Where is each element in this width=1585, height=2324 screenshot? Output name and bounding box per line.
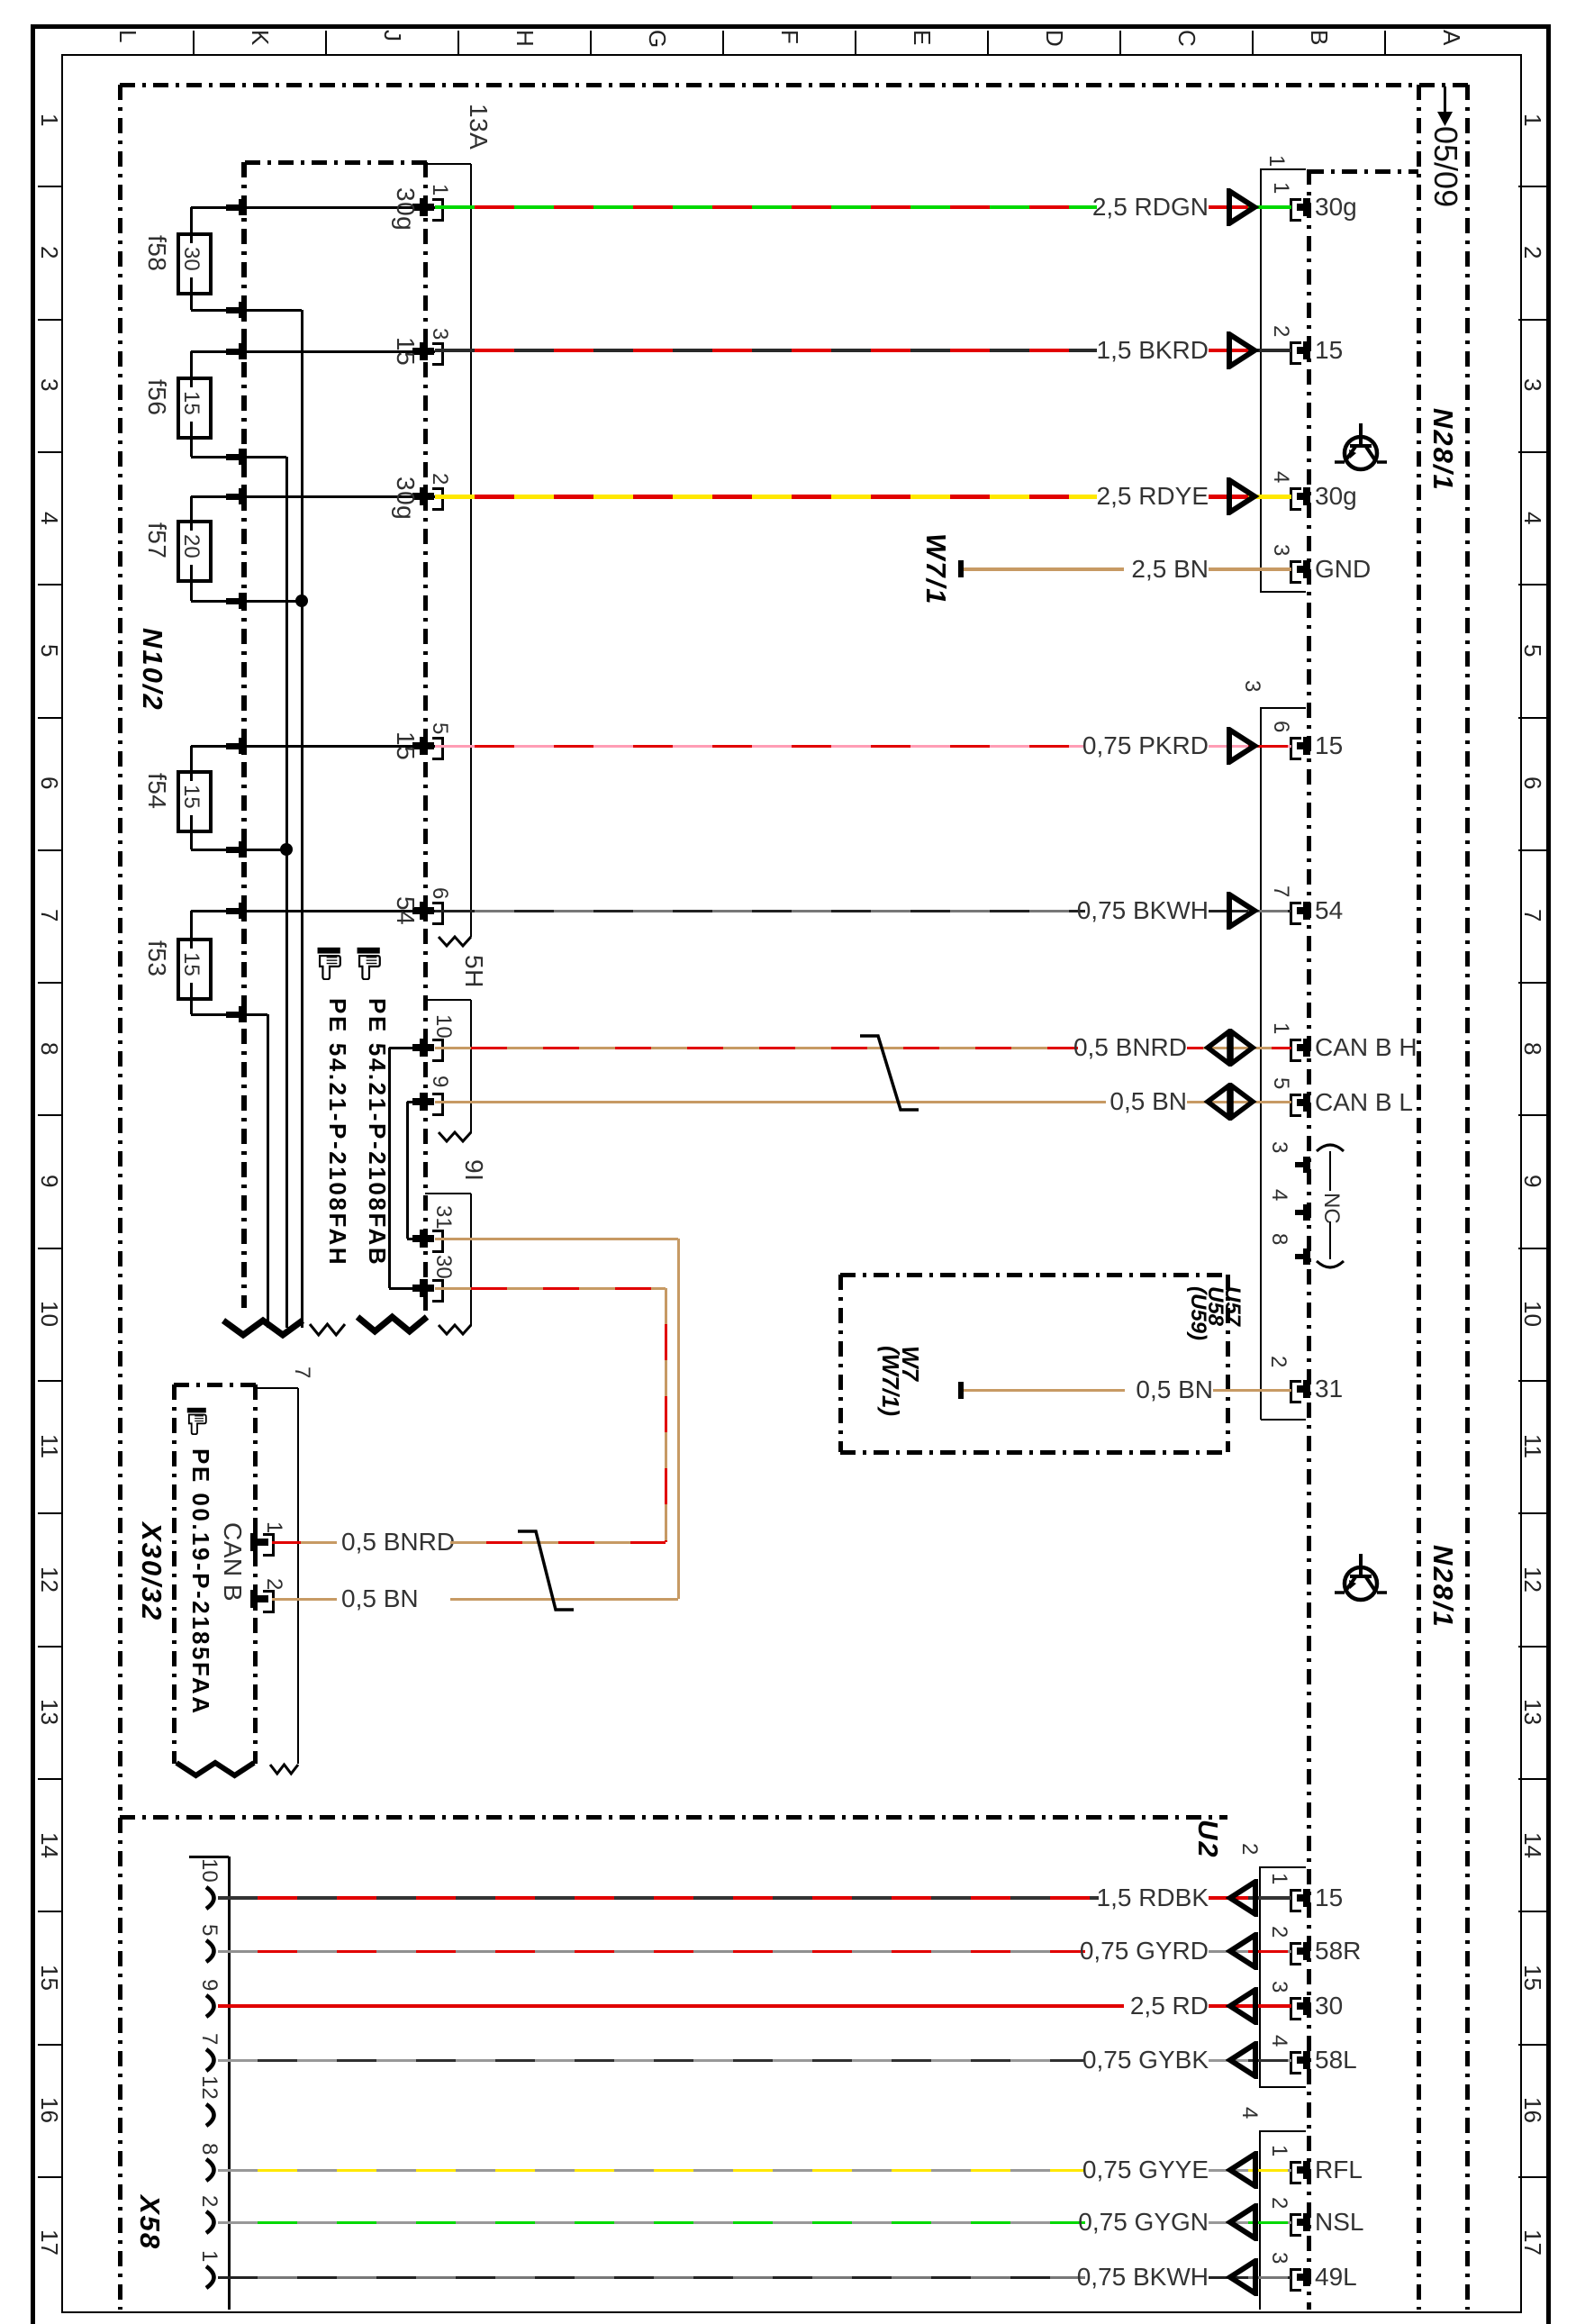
pin 1 on X30/32 [250, 1533, 258, 1551]
torn end of 13A outline [433, 931, 476, 951]
arrows 0,5 BNRD [1203, 1029, 1257, 1067]
torn end of 13A line [352, 1312, 432, 1337]
arrow 0,75 PKRD [1226, 727, 1262, 765]
wire 0,75 GYGN [218, 2221, 1085, 2224]
label 5H [461, 955, 486, 988]
pin 6 15 [1290, 737, 1301, 760]
fuse f53 15A [177, 938, 213, 1001]
connector 3 bracket [1260, 707, 1262, 1420]
reference PE 00.19-P-2185FAA with hand [185, 1407, 210, 1435]
wire 0,75 PKRD [435, 745, 1085, 748]
arrow 0,75 GYRD [1226, 1932, 1262, 1970]
torn end of 9I outline [433, 1320, 476, 1339]
label N10/2 [139, 628, 167, 712]
pin 3 NC [1303, 1157, 1310, 1173]
connector 3 number [1241, 680, 1263, 692]
pin 2 31 [1290, 1380, 1301, 1403]
arrow 0,75 BKWH [1226, 892, 1262, 930]
wire 0,75 GYBK [218, 2059, 1085, 2062]
label U2 [1194, 1820, 1222, 1859]
wire f54 bottom to feeder junction [191, 849, 286, 851]
wire f57 bottom to feeder junction [191, 600, 302, 603]
pin 2 15 [1290, 341, 1301, 365]
wire 0,75 GYRD [218, 1950, 1085, 1953]
pin 2 on X30/32 [250, 1590, 258, 1608]
pin f58 top on N10/2 [226, 204, 243, 211]
label X58 [136, 2195, 164, 2250]
pin f57 bottom on N10/2 [226, 598, 243, 604]
pin f53 bottom on N10/2 [226, 1012, 243, 1018]
pin 2 NSL (U2) [1290, 2213, 1301, 2237]
torn end of 5H outline [433, 1127, 476, 1147]
pin 8 on X58 [202, 2156, 225, 2183]
wire 2,5 BN to W7/1 [964, 567, 1124, 571]
connector 13A outline [425, 163, 471, 165]
pin f56 top on N10/2 [226, 349, 243, 355]
pin 3 30 (U2) [1290, 1997, 1301, 2020]
CAN B L link wire 5H-9 to 9I-31 [407, 1101, 420, 1103]
fuse f57 20A [177, 520, 213, 583]
pin 2 on X58 [202, 2209, 225, 2236]
ground point W7 box [840, 1273, 1227, 1277]
torn ends of feeder wires [304, 1319, 350, 1340]
connector 2 number [1267, 1356, 1289, 1367]
pin f54 bottom on N10/2 [226, 847, 243, 853]
torn end of N10/2 line [218, 1315, 308, 1340]
system boundary (dash-dot box) [118, 85, 122, 2310]
arrow 0,75 GYGN [1226, 2203, 1262, 2241]
pin 1 30g on 13A [412, 204, 434, 211]
label U57 U58 (U59) [1190, 1286, 1241, 1340]
pin 1 RFL (U2) [1290, 2161, 1301, 2184]
arrows 0,5 BN [1203, 1083, 1257, 1121]
wire f53 bottom feeder [191, 1013, 267, 1016]
arrow 2,5 RDGN [1226, 188, 1262, 226]
pin f57 top on N10/2 [226, 494, 243, 500]
connector X30/32 box [174, 1383, 257, 1387]
pin 8 NC [1303, 1248, 1310, 1265]
pin 4 30g [1290, 487, 1301, 511]
connector 1 number [1265, 155, 1287, 167]
ground terminal W7/1 [958, 560, 964, 577]
connector 4 bracket (U2) [1259, 2130, 1261, 2310]
connector 13A face line [423, 162, 428, 1311]
fuse f56 15A [177, 377, 213, 440]
pin 10 on 5H [412, 1044, 434, 1051]
sheet reference arrow 05/09 [1444, 86, 1446, 113]
wire 1,5 BKRD [435, 349, 1097, 352]
pin f53 top on N10/2 [226, 908, 243, 914]
connector 2 bracket (U2) [1259, 1866, 1261, 2088]
NC bracket [1315, 1137, 1345, 1155]
arrow 0,75 GYYE [1226, 2151, 1262, 2189]
pin 3 15 on 13A [412, 348, 434, 355]
wire 0,5 BN to CAN B pin 2 [272, 1598, 337, 1601]
fuse f58 30A [177, 232, 213, 295]
pin 3 GND [1290, 560, 1301, 584]
junction dot f57/f58 feeder [295, 595, 308, 607]
wire 0,5 BNRD CAN B H [435, 1047, 1078, 1049]
wire f54 top to 13A pin 5 [191, 745, 435, 748]
pin 9 on X58 [202, 1993, 225, 2020]
connector 9I outline [425, 1193, 471, 1194]
label X30/32 [138, 1522, 166, 1621]
arrow 2,5 RD [1226, 1987, 1262, 2025]
pin 7 54 [1290, 902, 1301, 925]
pin 6 54 on 13A [412, 907, 434, 914]
arrow 0,75 GYBK [1226, 2041, 1262, 2079]
arrow 1,5 RDBK [1226, 1879, 1262, 1917]
wire 0,75 GYYE [218, 2169, 1085, 2172]
connector 2 number [1238, 1843, 1260, 1855]
wire f56 bottom feeder [191, 456, 286, 458]
connector X58 outline [189, 1856, 229, 1858]
arrow 1,5 BKRD [1226, 331, 1262, 369]
transistor symbol upper [1334, 422, 1388, 477]
wire 0,75 BKWH [435, 910, 1085, 912]
wire f56 top to 13A pin 3 [191, 350, 435, 353]
pin 9 on 5H [412, 1098, 434, 1105]
wire 2,5 RD [218, 2004, 1124, 2008]
pin 1 on X58 [202, 2264, 225, 2291]
wire f57 top to 13A pin 2 [191, 495, 435, 498]
CAN B H link wire 5H-10 to 9I-30 [389, 1047, 420, 1049]
pin 1 15 (U2) [1290, 1889, 1301, 1912]
label W7/1 [922, 533, 950, 605]
junction dot f54/f56 feeder [280, 843, 293, 856]
arrow 2,5 RDYE [1226, 477, 1262, 515]
wire 0,5 BNRD to CAN B pin 1 [272, 1541, 337, 1544]
torn end of X30/32 outline [265, 1759, 303, 1779]
wire f53 top to 13A pin 6 [191, 910, 435, 912]
pin 1 30g [1290, 198, 1301, 222]
wire 2,5 RDGN [435, 205, 1097, 209]
connector 1 bracket [1260, 168, 1262, 593]
pin 3 49L (U2) [1290, 2268, 1301, 2292]
pin 5 CAN B L [1290, 1094, 1301, 1117]
label N28/1 lower [1429, 1545, 1457, 1629]
label N28/1 upper [1429, 408, 1457, 492]
pin 12 on X58 [202, 2102, 225, 2129]
transistor symbol lower [1334, 1553, 1388, 1607]
pin 30 on 9I [412, 1285, 434, 1292]
label 9I [461, 1159, 486, 1181]
pin 1 CAN B H [1290, 1039, 1301, 1062]
wire f58 bottom feeder [191, 309, 302, 312]
reference PE 54.21-P-2108FAB with hand [354, 947, 385, 980]
pin 5 15 on 13A [412, 742, 434, 749]
arrow 0,75 BKWH lower [1226, 2258, 1262, 2296]
pin f56 bottom on N10/2 [226, 454, 243, 460]
connector X30/32 outline [257, 1387, 298, 1389]
label 13A [466, 104, 491, 150]
label W7 (W7/1) [881, 1346, 920, 1416]
wire 0,5 BN CAN B L [435, 1101, 1106, 1103]
pin 2 58R (U2) [1290, 1942, 1301, 1965]
wire 0,5 BN to pin 31 [964, 1389, 1125, 1392]
wire f58 top to 13A pin 1 [191, 206, 435, 209]
N28/1 connector face line [1307, 169, 1311, 2310]
fuse f54 15A [177, 770, 213, 833]
pin 4 NC [1303, 1204, 1310, 1221]
wire 0,75 BKWH lower [218, 2276, 1085, 2279]
pin f58 bottom on N10/2 [226, 307, 243, 313]
N28/1 control unit outer edge [1417, 85, 1421, 2310]
torn end of X30/32 box [171, 1757, 259, 1781]
wire 1,5 RDBK [218, 1896, 1099, 1900]
label CAN B [220, 1522, 245, 1602]
pin 10 on X58 [202, 1884, 225, 1911]
connector 4 number [1238, 2107, 1260, 2119]
ground terminal W7 [958, 1382, 964, 1399]
pin 5 on X58 [202, 1938, 225, 1965]
reference PE 54.21-P-2108FAH with hand [314, 947, 345, 980]
connector 5H outline [425, 999, 471, 1001]
fuse box N10/2 boundary [245, 160, 427, 165]
twisted pair symbol CAN [856, 1032, 922, 1113]
pin 31 on 9I [412, 1235, 434, 1242]
wire 2,5 RDYE [435, 495, 1097, 499]
twisted pair symbol X30/32 [514, 1528, 577, 1613]
pin 2 30g on 13A [412, 493, 434, 500]
pin f54 top on N10/2 [226, 743, 243, 749]
pin 7 on X58 [202, 2047, 225, 2074]
pin 4 58L (U2) [1290, 2051, 1301, 2074]
